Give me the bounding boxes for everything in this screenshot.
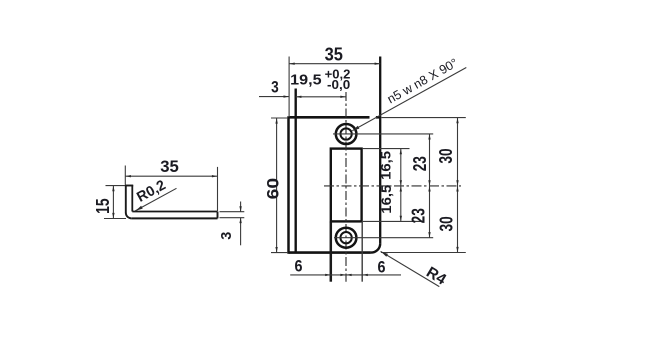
svg-text:16,5: 16,5	[378, 151, 394, 180]
svg-text:23: 23	[409, 208, 429, 223]
svg-text:6: 6	[295, 258, 303, 276]
svg-text:6: 6	[378, 258, 386, 276]
svg-text:23: 23	[410, 156, 430, 171]
svg-text:15: 15	[93, 198, 113, 214]
svg-text:60: 60	[265, 178, 283, 200]
svg-text:30: 30	[436, 148, 456, 163]
svg-text:16,5: 16,5	[378, 184, 394, 213]
svg-text:35: 35	[160, 157, 179, 176]
svg-text:30: 30	[437, 216, 457, 231]
svg-text:35: 35	[325, 43, 343, 64]
svg-text:-0,0: -0,0	[327, 78, 350, 92]
svg-text:3: 3	[271, 79, 279, 97]
svg-text:3: 3	[219, 232, 235, 240]
svg-text:19,5: 19,5	[290, 71, 321, 88]
